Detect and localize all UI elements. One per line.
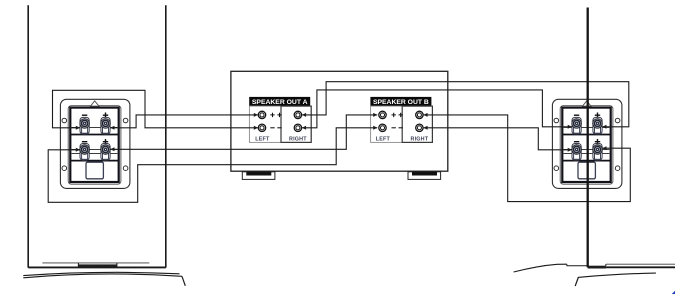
jumper plate R xyxy=(578,162,595,179)
wire A-right-plus to right speaker top plus post xyxy=(302,82,629,127)
terminal A right + xyxy=(294,111,301,118)
screw hole R1 xyxy=(554,118,559,123)
panel outline L xyxy=(68,106,121,185)
screw hole L3 xyxy=(62,166,67,171)
terminal A left + xyxy=(258,111,265,118)
screw hole R2 xyxy=(615,118,620,123)
svg-text:SPEAKER OUT A: SPEAKER OUT A xyxy=(252,99,308,106)
panel outline R xyxy=(560,106,613,185)
SPEAKER OUT A terminal box xyxy=(249,106,311,142)
wire B-left-minus to left speaker bottom minus post xyxy=(48,128,377,203)
screw hole L1 xyxy=(62,118,67,123)
screw hole L4 xyxy=(123,166,128,171)
svg-text:RIGHT: RIGHT xyxy=(289,137,307,143)
minus plus labels L xyxy=(82,113,108,145)
right speaker cabinet bottom xyxy=(567,264,675,267)
screw hole R4 xyxy=(615,166,620,171)
terminal B right - xyxy=(416,124,423,131)
speaker L inner terminal panel xyxy=(70,108,118,182)
terminal A right - xyxy=(294,124,301,131)
binding post R top minus xyxy=(572,117,582,134)
terminal B left + xyxy=(379,111,386,118)
speaker L terminal plate xyxy=(60,99,129,188)
binding post R bottom plus xyxy=(593,144,603,161)
jumper plate L xyxy=(86,162,103,179)
terminal B right + xyxy=(416,111,423,118)
left speaker base plate xyxy=(23,272,185,285)
speaker R inner terminal panel xyxy=(562,108,610,182)
svg-text:LEFT: LEFT xyxy=(255,137,270,143)
blue continue marker xyxy=(672,291,675,294)
wire A-left-minus to left speaker top minus post xyxy=(53,90,258,128)
wire A-right-minus to right speaker top minus post xyxy=(302,90,572,128)
wire B-right-minus to right speaker bottom minus post xyxy=(424,128,572,150)
wire B-left-plus to left speaker bottom plus post xyxy=(110,115,377,149)
screw hole R3 xyxy=(554,166,559,171)
svg-text:SPEAKER OUT B: SPEAKER OUT B xyxy=(373,99,429,106)
triangle marker L xyxy=(91,101,100,106)
left speaker cabinet xyxy=(28,5,166,267)
SPEAKER OUT A label bar xyxy=(249,97,310,106)
amplifier rear panel xyxy=(231,71,448,171)
binding post L top plus xyxy=(101,117,111,134)
terminal row lines L xyxy=(72,127,118,153)
wire B-right-plus to right speaker bottom plus post xyxy=(424,115,631,202)
wire A-left-plus to left speaker top plus post xyxy=(110,115,257,128)
binding post R top plus xyxy=(593,117,603,134)
speaker R terminal plate xyxy=(552,99,622,188)
terminal row lines R xyxy=(564,127,610,153)
left speaker foot tab xyxy=(78,263,117,267)
binding post R bottom minus xyxy=(572,144,582,161)
svg-text:LEFT: LEFT xyxy=(376,137,391,143)
polarity marks B xyxy=(392,113,403,128)
binding post L top minus xyxy=(80,117,90,134)
triangle marker R xyxy=(583,101,592,106)
right speaker cabinet edge xyxy=(587,8,589,268)
amplifier left foot xyxy=(242,172,275,180)
minus plus labels R xyxy=(574,113,600,145)
binding post L bottom minus xyxy=(80,144,90,161)
amplifier right foot xyxy=(408,172,441,180)
svg-text:RIGHT: RIGHT xyxy=(411,137,429,143)
right speaker base plate xyxy=(514,264,656,286)
terminal B left - xyxy=(379,124,386,131)
terminal A left - xyxy=(258,124,265,131)
polarity marks A xyxy=(270,113,281,128)
SPEAKER OUT B label bar xyxy=(370,97,431,106)
binding post L bottom plus xyxy=(101,144,111,161)
right speaker foot tab xyxy=(588,266,606,269)
screw hole L2 xyxy=(123,118,128,123)
SPEAKER OUT B terminal box xyxy=(371,106,433,142)
